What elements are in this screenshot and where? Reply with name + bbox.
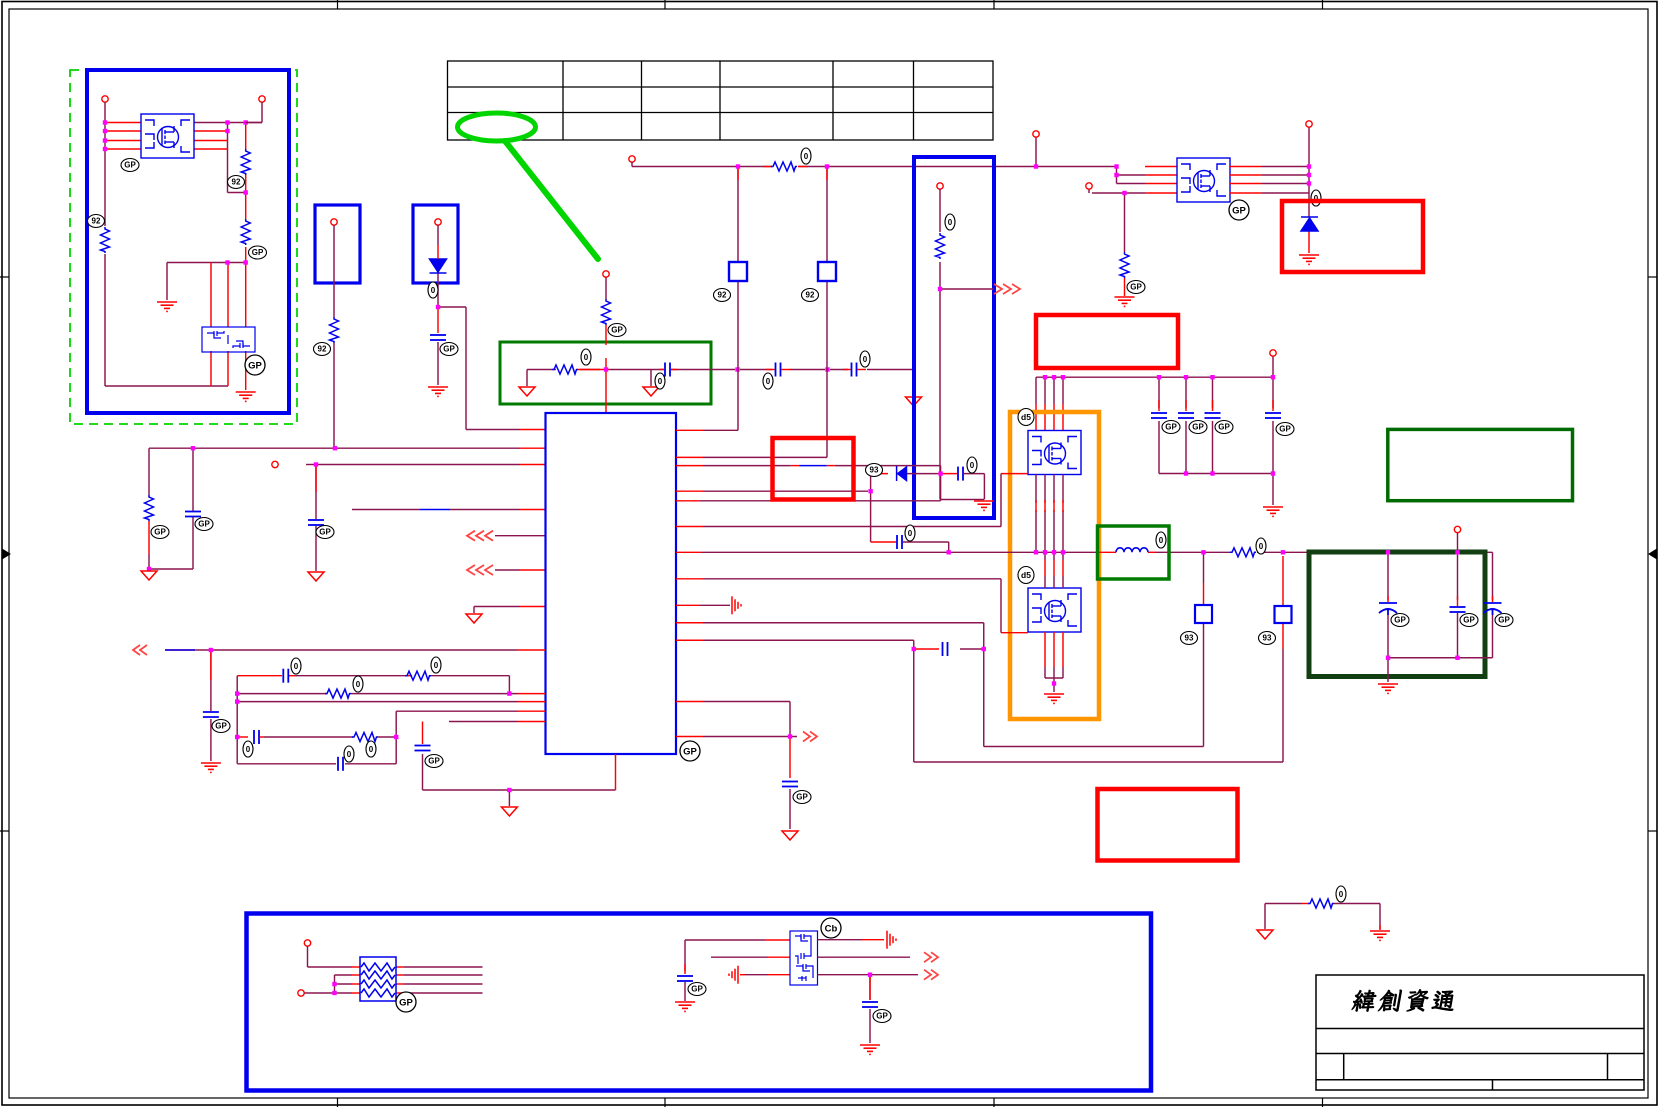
label R9 [353, 676, 363, 692]
wire Q3 right [1262, 127, 1309, 217]
junction dot q6 [868, 973, 872, 977]
resistor R4 [330, 317, 339, 343]
label C4 [655, 373, 665, 389]
ground G2 [236, 392, 256, 401]
diode D1 down [430, 259, 447, 273]
highlight box RC [500, 342, 711, 404]
terminal J1 [331, 219, 337, 225]
label U1-GP [680, 741, 700, 761]
red stubs Q6 out [862, 940, 884, 1000]
label C5 [763, 373, 773, 389]
label D2 [1311, 190, 1321, 206]
capacitor C19 [782, 782, 798, 787]
wire J2 down [438, 225, 520, 430]
label R13 [945, 214, 955, 230]
wire bus y377 [1036, 356, 1273, 505]
capacitor C15 [1265, 413, 1281, 418]
terminal P10 [1270, 350, 1276, 356]
label C7-GP [212, 720, 230, 733]
inductor L1 [1116, 548, 1148, 553]
capacitor C4 [665, 363, 670, 377]
label R-90 [228, 176, 245, 189]
ground AG3 [466, 614, 482, 623]
jumper JP4 [1275, 606, 1292, 623]
wire red stubs J2 [438, 245, 545, 430]
label C24-GP [873, 1010, 891, 1023]
capacitor C20 polarized [1379, 603, 1397, 615]
label R-20 [88, 215, 105, 228]
highlight red box3 [1098, 789, 1238, 861]
wire net SDA bus y650 [196, 650, 616, 806]
block box B2 [247, 914, 1152, 1091]
wire nets right maroon [700, 370, 1493, 830]
terminal P9 [937, 183, 943, 189]
terminal J2 [435, 219, 441, 225]
junction dots y377 [1043, 375, 1047, 379]
arrows bus-left [133, 645, 147, 655]
capacitor C17 [897, 535, 902, 549]
red stubs outcaps [1388, 596, 1493, 606]
label C8 [291, 658, 301, 674]
terminal P11 [1454, 526, 1460, 532]
label R8 [431, 657, 441, 673]
resistor R14 on bus [1230, 548, 1256, 557]
junction dots on box edge [1386, 550, 1390, 554]
mosfet Q5 package [1028, 588, 1081, 632]
wire net VIN bus y448 [149, 448, 545, 613]
resistor R1 [241, 149, 250, 175]
block box B1 [914, 157, 994, 518]
capacitor C10 [338, 757, 343, 771]
capacitor C1 [430, 335, 446, 340]
ground AG2 [308, 572, 324, 581]
capacitor C12 [1151, 413, 1167, 418]
capacitor C5 [776, 363, 781, 377]
resistor R2 [241, 219, 250, 245]
HIGHLIGHT-POINTER green line [505, 141, 598, 259]
resistor R8 [405, 671, 431, 680]
capacitor C9 [254, 730, 259, 744]
label C19-GP [793, 791, 811, 804]
highlight red box PWR [1036, 315, 1178, 368]
wire pulldown [1265, 904, 1380, 930]
resistor R5 [145, 495, 154, 521]
label C22-GP [1495, 614, 1513, 627]
dual mosfet Q6 package vertical [790, 931, 818, 985]
label JP2 [802, 289, 819, 302]
terminal P6 [1033, 131, 1039, 137]
label JP3 [1181, 632, 1198, 645]
terminal P5 [629, 156, 635, 162]
arrows in3b [467, 565, 493, 575]
wire blue segment [420, 509, 450, 511]
junction dots outcaps [1386, 656, 1390, 660]
label L1 [1156, 532, 1166, 548]
ground AG8 [782, 831, 798, 840]
label Q3-GP [1229, 200, 1249, 220]
label Q6-Cb [821, 918, 841, 938]
ground G1 [157, 302, 177, 311]
capacitor C16 [958, 467, 963, 481]
highlight red box D2 [1282, 201, 1423, 272]
label Q5-d5 [1018, 567, 1034, 584]
diode D2 up [1301, 217, 1318, 231]
label R12-GP [1127, 281, 1145, 294]
wire Q6 outputs [818, 940, 919, 1043]
company logo 緯創資通 as paths [1351, 990, 1456, 1012]
fence sym2 [729, 966, 738, 984]
label R4 [314, 343, 331, 356]
label R11 [801, 148, 811, 164]
arrows out3 [994, 284, 1020, 294]
ground G11 [675, 1002, 695, 1011]
wire B1 internals [940, 189, 994, 500]
label R7 [581, 349, 591, 365]
fence sym3 [887, 931, 896, 949]
label C23-GP [688, 983, 706, 996]
red stubs mid [685, 940, 790, 975]
label net-93 [866, 464, 883, 477]
ground G8 [1263, 507, 1283, 516]
wire outcap branches [1388, 532, 1493, 682]
ground AG4 [519, 387, 535, 396]
label C3-GP [316, 526, 334, 539]
ground G13 [1370, 931, 1390, 940]
red stubs lower-left [165, 650, 616, 790]
red stubs rpack [352, 967, 404, 993]
label C9 [243, 741, 253, 757]
junction dots [191, 446, 195, 450]
ground G7 [974, 501, 994, 510]
wire Q4 verticals [1036, 475, 1063, 561]
connector box J1 [315, 205, 360, 283]
dual mosfet Q2 package [202, 327, 255, 352]
terminal P4 [603, 271, 609, 277]
terminal P3 [272, 461, 278, 467]
ground AG5 [643, 387, 659, 396]
label C15-GP [1276, 423, 1294, 436]
label RP1-GP [396, 992, 416, 1012]
capacitor C8 [283, 669, 288, 683]
ground AG7 [501, 807, 517, 816]
resistor R15 [1308, 899, 1334, 908]
terminal P7 [1086, 183, 1092, 189]
diode D3 left [897, 466, 907, 481]
wire [105, 102, 262, 386]
fence sym1 [732, 596, 741, 614]
label R15 [1336, 886, 1346, 902]
red stubs Q3 right [1230, 167, 1309, 254]
HIGHLIGHT-ELLIPSE green [458, 113, 536, 141]
capacitor C7 [203, 712, 219, 717]
junction dot [436, 305, 440, 309]
label R10 [366, 741, 376, 757]
capacitor C24 [862, 1002, 878, 1007]
label JP1 [714, 289, 731, 302]
junction dot cap17 [947, 550, 951, 554]
resistor R10 [352, 733, 378, 742]
wire rc row [527, 277, 914, 396]
wire rpack outputs [404, 967, 483, 993]
label C16 [967, 457, 977, 473]
red stubs right nets [676, 430, 1283, 778]
capacitor C11 [415, 746, 431, 751]
ground G5 [1115, 297, 1135, 306]
capacitor C2 [185, 512, 201, 517]
junction dots rpack [332, 982, 336, 986]
label C21-GP [1460, 614, 1478, 627]
ground G3 [428, 387, 448, 396]
wire Q5 verticals [1045, 576, 1063, 692]
terminal P13 [298, 990, 304, 996]
mosfet Q4 package [1028, 431, 1081, 475]
label C11-GP [425, 755, 443, 768]
junction dots Q3 [1307, 164, 1311, 168]
capacitor C14 [1205, 413, 1221, 418]
junction dots web [209, 648, 213, 652]
junction dots diode row [938, 471, 942, 475]
resistor R6 vertical [602, 299, 611, 325]
resistor R12 [1120, 252, 1129, 278]
jumper JP3 [1195, 605, 1212, 623]
connector box J2 [413, 205, 458, 283]
jumper JP1 [729, 262, 747, 281]
junction dots [103, 120, 107, 124]
capacitor C6 [852, 363, 857, 377]
label Q2-GP [245, 355, 265, 375]
label C2-GP [195, 518, 213, 531]
label Q4-d5 [1018, 409, 1034, 426]
junction dots rc [604, 367, 608, 371]
label C14-GP [1215, 421, 1233, 434]
junction dot B1 [938, 287, 942, 291]
wire mid cap branch [685, 940, 768, 1001]
terminal P1 [102, 96, 108, 102]
block outline U-A [87, 70, 289, 413]
ground G4 [201, 763, 221, 772]
ground AG6 [906, 397, 922, 406]
label C12-GP [1162, 421, 1180, 434]
red stubs Q4 [1001, 474, 1063, 576]
label R5-GP [151, 526, 169, 539]
dot y736 [788, 734, 792, 738]
arrows q6-2 [924, 970, 938, 980]
capacitor C13 [1178, 413, 1194, 418]
label C10 [344, 746, 354, 762]
resistor R9 [325, 689, 351, 698]
resistor R13 [936, 233, 945, 259]
junction dots cap18 [912, 647, 916, 651]
IC U1 [546, 413, 677, 754]
mosfet Q1 package [141, 114, 194, 158]
wire Q1 right top to P2 [246, 122, 262, 124]
red stubs pulldown [1302, 904, 1380, 931]
highlight dashed box [70, 70, 297, 424]
highlight orange box [1010, 412, 1099, 719]
resistor R7 [552, 365, 578, 374]
highlight green box L1 [1098, 526, 1170, 579]
label R-GP [121, 159, 139, 172]
junction dot Q5 [1052, 681, 1056, 685]
ground G12 [860, 1045, 880, 1054]
arrows in3 [467, 531, 493, 541]
red cap stubs y377 [1036, 400, 1273, 431]
resistor R3 [101, 227, 110, 253]
terminal P8 [1306, 121, 1312, 127]
wire top bus [632, 137, 1145, 370]
wire blue segment in red box [800, 465, 827, 467]
wire red stubs left [149, 448, 545, 606]
highlight red box FB [773, 438, 854, 500]
red stubs rc [552, 325, 866, 413]
label R-GP2 [249, 246, 267, 259]
label C1-GP [440, 343, 458, 356]
wire red pin stubs [105, 123, 246, 391]
capacitor C21 [1450, 607, 1466, 612]
arrows q6-1 [924, 952, 938, 962]
label C17 [905, 525, 915, 541]
terminal P12 [304, 940, 310, 946]
resistor R11 on bus [771, 162, 797, 171]
mosfet Q3 package [1177, 158, 1230, 202]
ground G6 [1299, 255, 1319, 264]
wire blue segment bus [165, 649, 195, 651]
label C13-GP [1189, 421, 1207, 434]
highlight dkgreen box2 [1309, 552, 1485, 677]
label C6 [860, 351, 870, 367]
capacitor C23 [677, 976, 693, 981]
label R6-GP [608, 324, 626, 337]
arrows out2 [803, 732, 817, 742]
label JP4 [1259, 632, 1276, 645]
highlight dkgreen box1 [1388, 429, 1573, 500]
capacitor C18 [943, 642, 948, 656]
capacitor C3 [308, 520, 324, 525]
jumper JP2 [818, 262, 836, 281]
wire rpack inputs [305, 946, 353, 993]
red stubs top bus [738, 167, 1177, 297]
REVISION-TABLE [448, 61, 994, 140]
ground G9 [1044, 694, 1064, 703]
label C20-GP [1391, 614, 1409, 627]
resistor pack RP1 [360, 957, 396, 1001]
junction dots bus552 [1034, 550, 1038, 554]
label D1 [428, 282, 438, 298]
ground AG1 [141, 571, 157, 580]
terminal P2 [259, 96, 265, 102]
junction dots bus [736, 164, 740, 168]
label R14 [1256, 538, 1266, 554]
wire J1 down [333, 225, 335, 448]
ground G10 [1378, 684, 1398, 693]
capacitor C22 polarized [1484, 603, 1502, 615]
red stubs Q5 [1001, 632, 1063, 667]
ground AG9 [1257, 930, 1273, 939]
